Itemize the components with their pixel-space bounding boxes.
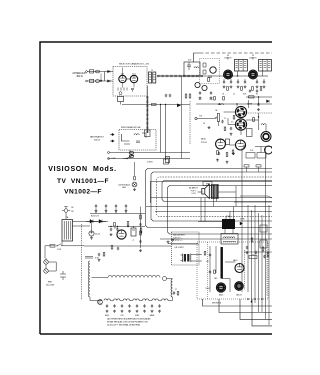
tube V9 6X4 rectifier (117, 230, 126, 239)
resistor R18 (223, 97, 225, 101)
ground (244, 85, 247, 88)
svg-text:0.5: 0.5 (231, 122, 233, 124)
wire right column 6 (261, 215, 263, 312)
wire HT secondary 2 (73, 225, 91, 227)
wire sound IF feed (246, 96, 272, 98)
horizontal output section dashed box (197, 242, 268, 299)
matching coil upper (96, 70, 100, 73)
resistor IF bias 2 (241, 87, 243, 91)
svg-text:VISIOSON Mods.: VISIOSON Mods. (48, 166, 116, 173)
wire selector AGC drop (120, 102, 122, 105)
svg-text:1B3-GT: 1B3-GT (236, 294, 242, 296)
UHF antenna terminal lower (110, 140, 114, 142)
resistor R30 (127, 222, 129, 226)
wire deflection bus 2 (151, 172, 272, 221)
wire flyback up3 (233, 207, 235, 220)
heater chain vertical right (171, 279, 173, 297)
wire drop 1 (160, 105, 162, 153)
vert output transformer (181, 254, 202, 263)
resistor (134, 177, 136, 180)
wire IF signal 3 (257, 75, 268, 77)
ground audio cathode (216, 159, 219, 162)
box tone control (257, 153, 266, 159)
wire T5 down 1 (213, 198, 215, 207)
svg-text:ANTENA EXT: ANTENA EXT (72, 72, 87, 75)
ground (230, 85, 233, 88)
svg-text:470: 470 (199, 99, 202, 101)
sound section dashed line (246, 112, 272, 114)
potentiometer contrast (217, 114, 219, 122)
resistor R27 (253, 118, 255, 122)
wire flyback up2 (229, 212, 231, 220)
input diode upper (108, 70, 111, 72)
ground vert box (171, 239, 174, 242)
capacitor C35 (218, 152, 220, 155)
wire mains down (44, 246, 46, 258)
resistor IF bias 4 (260, 87, 262, 91)
wire video in (197, 118, 216, 120)
ground (256, 85, 259, 88)
wire IF stub 1 (223, 79, 225, 81)
ground (237, 85, 240, 88)
ground C59 (125, 210, 128, 213)
wire tuner tube2 down (133, 83, 135, 88)
wire UHF box to switch bus (129, 150, 131, 159)
wire deflection bus 3 (162, 181, 272, 202)
diode sound det (267, 100, 270, 103)
wire bus C (155, 211, 272, 213)
capacitor IF decoupling 2 (230, 80, 232, 83)
capacitor IF decoupling 5 (256, 80, 258, 83)
yoke bus 3 (240, 299, 272, 319)
wire HT secondary (73, 221, 109, 223)
flyback transformer TSA (black) (222, 219, 235, 229)
heater loop pair 2 (114, 299, 120, 301)
box HV cage (221, 234, 238, 245)
capacitor C55 (98, 253, 100, 256)
rectifier diode D2 (99, 220, 106, 224)
tube V6b 6AW8 lower (stacked) (235, 119, 246, 130)
wire heater join (168, 297, 173, 301)
voltage selector (60, 271, 66, 280)
trap coil (194, 67, 199, 68)
antenna terminal upper (86, 71, 88, 73)
ground (128, 310, 131, 313)
heater loop pair 3 (123, 299, 129, 301)
wire deflection bus 1 (146, 169, 273, 228)
svg-text:TV VN1001—F: TV VN1001—F (57, 178, 109, 185)
wire to speaker (198, 191, 203, 193)
capacitor C60 (246, 246, 248, 249)
screen lead dashed (189, 101, 191, 145)
resistor R41 (262, 247, 264, 251)
capacitor C57 (105, 204, 107, 207)
capacitor C11 (165, 94, 167, 97)
wire T2 up (227, 57, 229, 60)
svg-text:ALTAVOZ: ALTAVOZ (189, 187, 198, 190)
HV thick lead (220, 247, 222, 279)
wire corner 202 (234, 201, 272, 203)
matching coil lower (96, 80, 100, 83)
capacitor C12 (169, 94, 171, 97)
dashed wire right column B (266, 250, 268, 296)
capacitor IF decoupling 1 (223, 80, 225, 83)
wire box to flyback 2 (204, 198, 206, 222)
wire pot down (217, 122, 219, 127)
wire IF stub 5 (256, 79, 258, 81)
resistor R28 (232, 150, 234, 154)
UHF trimmer (136, 141, 140, 142)
wire IF stub 2 (230, 79, 232, 81)
svg-text:RED: RED (48, 282, 53, 284)
wire corner 196 (240, 196, 272, 198)
svg-text:CON: CON (57, 249, 62, 251)
wire right column 5 (258, 213, 260, 312)
tube V2 6T4 mixer (130, 75, 137, 82)
resistor R32 (114, 223, 116, 227)
svg-text:6BQ5: 6BQ5 (105, 315, 109, 317)
svg-text:3.2 Ω: 3.2 Ω (191, 193, 196, 195)
chassis dashed boundary (81, 224, 83, 300)
ground video (208, 126, 211, 129)
dashed wire right column A (244, 250, 246, 290)
resistor R50 (204, 252, 206, 256)
resistor R9 (208, 78, 210, 82)
wire heater link (120, 300, 123, 302)
svg-text:1B3: 1B3 (214, 278, 217, 280)
wire antenna join (104, 72, 106, 82)
junction dots IF wire (223, 75, 249, 76)
heater loop pair 5 (142, 299, 148, 301)
yoke bus 2 (219, 299, 272, 313)
wire flyback 1 (224, 229, 226, 234)
tuner coil L1 (118, 88, 127, 91)
wire audio coupling (230, 144, 236, 146)
resistor R34 (111, 246, 113, 250)
ground column (139, 249, 142, 252)
wire right column 7 (265, 148, 267, 319)
svg-text:6BQ5: 6BQ5 (201, 139, 206, 141)
wire sound drop 2 (258, 113, 260, 130)
tube V7b PCL82 triode (236, 140, 246, 150)
ground lamp (133, 188, 136, 191)
UHF coil (134, 133, 146, 138)
wire tuner tube1 down (122, 83, 124, 88)
wire heater link (110, 300, 113, 302)
ground right 1 (246, 251, 249, 254)
tube V8 sound output (right) (261, 132, 271, 142)
capacitor C53 (116, 228, 118, 231)
ground C21 (210, 97, 213, 100)
IF transformer T3 (259, 60, 272, 72)
capacitor C28 (243, 145, 245, 148)
wire IF stub 3 (237, 79, 239, 81)
ground vert (167, 241, 170, 244)
heater loop pair 1 (104, 299, 110, 301)
wire to V6a grid (224, 111, 236, 113)
ground (143, 310, 146, 313)
UHF mixer diode (122, 134, 131, 144)
capacitor right rc (263, 255, 265, 258)
resistor R33 (103, 253, 105, 257)
ground (158, 310, 161, 313)
resistor R26 (224, 127, 226, 131)
wire IF B+ corner (194, 53, 201, 62)
UHF tuner dashed box (119, 130, 156, 151)
ground C52 (110, 233, 113, 236)
svg-text:20.000 Ω/V Y SIN SEÑAL DE ANTE: 20.000 Ω/V Y SIN SEÑAL DE ANTENA (107, 324, 141, 327)
shielded cable tuner to IF (157, 75, 203, 77)
tube V5 6CB6 IF2 (249, 70, 258, 79)
box (247, 129, 253, 137)
wire right column 1 (241, 148, 243, 292)
wire bus heater B (146, 206, 272, 208)
heater bypass cap 6 (143, 304, 145, 307)
heater bypass cap 5 (136, 304, 138, 307)
antenna terminal lower (86, 80, 88, 82)
resistor R17 (214, 97, 216, 101)
wire C58 stub (115, 208, 117, 214)
wire right column 4 (254, 205, 256, 303)
capacitor C22 (249, 89, 251, 92)
wire right column 2 (247, 205, 249, 292)
ground (136, 310, 139, 313)
capacitor C71 (209, 270, 211, 273)
box TRA (203, 182, 212, 186)
ground (263, 85, 266, 88)
wire V6 plate (248, 100, 250, 108)
svg-text:110-220V: 110-220V (46, 284, 55, 286)
capacitor IF decoupling 3 (237, 80, 239, 83)
capacitor C54 (117, 247, 119, 250)
ground R35 (226, 161, 229, 164)
resistor IF bias 3 (252, 87, 254, 91)
coil L21 (261, 124, 266, 125)
ground V6 (232, 152, 235, 155)
heater tap (85, 257, 93, 259)
svg-text:ESTAN MEDIDAS CON UN INSTRUMEN: ESTAN MEDIDAS CON UN INSTRUMENTO DE (107, 321, 149, 324)
heater bypass cap 8 (158, 304, 160, 307)
wire lamp feed (134, 162, 136, 176)
wire flyback 2 (232, 229, 234, 234)
audio stage box bottom (151, 197, 273, 199)
tube V1 6X7 RF amp (119, 75, 126, 82)
wire T2 down (237, 71, 239, 76)
IF strip dashed boundary (200, 52, 272, 54)
box (164, 159, 169, 164)
wire heater link (130, 300, 133, 302)
wire V6a plate feed (236, 104, 238, 107)
junction dot 2 (258, 116, 259, 117)
connector small tube (129, 151, 133, 154)
wire IF signal 1 (203, 75, 224, 77)
flyback coil loops (223, 237, 235, 238)
wire audio B+ drop (235, 186, 237, 207)
dial lamp LAT ESCALA UHF (132, 182, 137, 187)
svg-text:SELECTOR CANALES 6X7—6T4: SELECTOR CANALES 6X7—6T4 (119, 63, 150, 66)
wire to V6b grid (228, 124, 235, 126)
resistor R51 (214, 270, 216, 274)
svg-text:82: 82 (256, 94, 258, 96)
power transformer T6 (62, 220, 73, 242)
svg-text:LAT ESCALA: LAT ESCALA (118, 183, 130, 186)
capacitor IF decoupling 6 (263, 80, 265, 83)
wire line out link (222, 279, 230, 293)
box (256, 165, 261, 167)
capacitor C27 (230, 127, 232, 130)
wire bus stub 2 (258, 167, 260, 172)
svg-text:6T8: 6T8 (121, 315, 124, 317)
switch CON power (57, 244, 64, 246)
junction dot (258, 96, 259, 97)
VHF tuner dashed box (113, 67, 147, 97)
capacitor column C1 (139, 223, 141, 226)
terminal circle switch bus (108, 158, 110, 160)
wire T3 up (252, 57, 254, 60)
svg-text:LAS TENSIONES DE ALIMENTACION: LAS TENSIONES DE ALIMENTACION INDICADAS (107, 318, 151, 321)
svg-text:300 Ω: 300 Ω (94, 139, 100, 141)
wire B+ to vert section (84, 245, 172, 247)
wire right rc1 (244, 251, 272, 253)
box (152, 103, 157, 105)
svg-text:ANTENA EXT: ANTENA EXT (90, 136, 104, 139)
tube V12 1B3 HV rect (235, 282, 244, 291)
wire tuner tube1 up (122, 68, 124, 76)
wire deflection bus 4 (168, 186, 273, 235)
heater loop pair 6 (152, 299, 158, 301)
wire bar left2 (215, 246, 217, 273)
audio stage box outline (151, 182, 273, 204)
box volume control (246, 153, 255, 159)
svg-text:6AW8: 6AW8 (247, 103, 252, 106)
wire sound out (255, 146, 272, 148)
wire IF stub 4 (244, 79, 246, 81)
fine tuning control (119, 92, 122, 95)
wire C59 stub (125, 208, 127, 214)
ground C57 (105, 210, 108, 213)
small tube V3b below trap (195, 82, 200, 87)
wire deflection bus dashed (157, 177, 273, 217)
wire heater join left (89, 297, 91, 301)
dashed divider line output (207, 242, 209, 299)
filter capacitor C50 electrolytic (89, 231, 94, 236)
wire V6 cathode (240, 130, 242, 135)
capacitor C21 (210, 91, 212, 94)
wire to flyback (198, 221, 222, 223)
resistor heater end (177, 292, 179, 296)
svg-text:SALIDA VERT.: SALIDA VERT. (173, 234, 186, 237)
capacitor IF decoupling 4 (244, 80, 246, 83)
wire tuner down (146, 86, 148, 96)
resistor R40 (251, 238, 253, 242)
wire bar left (209, 246, 211, 292)
vert output section dashed box (172, 232, 200, 265)
box (244, 165, 249, 167)
heater chain horizontal 1 (108, 276, 160, 278)
wire transformer primary (61, 241, 63, 246)
schematic border frame (40, 42, 272, 334)
wire component column (140, 207, 142, 249)
resistor IF bias 1 (227, 87, 229, 91)
trap parts (203, 63, 212, 77)
svg-text:LIN V VERT: LIN V VERT (175, 247, 184, 249)
heater bypass cap 3 (121, 304, 123, 307)
tube V4 6CB6 IF1 (224, 70, 233, 79)
wire antenna lower (87, 80, 113, 82)
trap capacitor (187, 62, 191, 70)
ground (151, 310, 154, 313)
output transformer T5 (211, 185, 218, 199)
ground C24 (257, 108, 260, 111)
filter cap C51 (131, 228, 136, 236)
wire T3 down (262, 71, 264, 76)
junction dots yoke (247, 298, 263, 302)
svg-text:VOL: VOL (250, 150, 253, 152)
svg-text:DEFLEXION: DEFLEXION (212, 303, 222, 305)
resistor R21 cathode (217, 151, 219, 155)
svg-text:50+50: 50+50 (95, 234, 100, 236)
peaking coil L20 (218, 104, 224, 105)
wire heater link (139, 300, 142, 302)
wire AGC bus (122, 104, 190, 106)
wire mains 2 (64, 245, 84, 247)
svg-text:VN1002—F: VN1002—F (64, 189, 102, 196)
svg-text:6BQ5: 6BQ5 (219, 295, 223, 297)
svg-text:300 Ω: 300 Ω (76, 76, 82, 78)
svg-text:CONTR: CONTR (147, 162, 154, 164)
capacitor C58 (115, 204, 117, 207)
tube V6a 6AW8 upper (stacked) (235, 106, 246, 117)
wire right column 8 (268, 205, 270, 325)
ground C58 (115, 210, 118, 213)
heater bypass cap 7 (151, 304, 153, 307)
damper diode (240, 222, 243, 225)
resistor chain vert (168, 243, 198, 245)
resistor R7 (185, 94, 187, 98)
wire B+ raw (108, 226, 145, 228)
wire C56 stub (95, 208, 97, 214)
capacitor C23 (256, 89, 258, 92)
wire heater end (167, 300, 169, 302)
wire V8 grid (265, 125, 267, 131)
svg-text:110: 110 (71, 207, 74, 209)
terminal TV1 (195, 117, 197, 119)
ground (113, 310, 116, 313)
capacitor C70 (209, 253, 211, 256)
resistor right rc (267, 253, 269, 257)
capacitor C26 (221, 120, 223, 123)
UHF antenna terminal upper (110, 133, 114, 135)
capacitor heater end (173, 291, 175, 294)
IF trap dashed box (200, 59, 220, 84)
svg-text:0.1: 0.1 (233, 94, 235, 96)
tuner trimmer C1 (131, 89, 134, 92)
yoke bus 1 (203, 299, 273, 306)
wire heater 3 (90, 300, 102, 302)
heater bypass cap 4 (128, 304, 130, 307)
wire bus A (110, 152, 191, 154)
wire drop sound (258, 97, 260, 104)
wire rectifier to cap (91, 223, 93, 231)
ground (100, 79, 103, 82)
wire speaker return (218, 191, 237, 193)
wire between tuner tubes (126, 78, 130, 80)
heater loop pair 7 (162, 299, 168, 301)
svg-text:6AW8: 6AW8 (150, 314, 155, 317)
svg-text:V-VT 87 ×—: V-VT 87 ×— (173, 239, 183, 242)
wire to tone box (260, 147, 262, 153)
wire heater link (158, 300, 161, 302)
